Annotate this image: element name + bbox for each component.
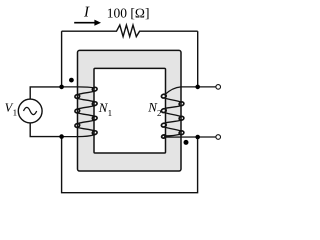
svg-text:1: 1 [13,107,18,117]
svg-text:100 [Ω]: 100 [Ω] [107,5,150,20]
svg-text:2: 2 [157,108,162,118]
svg-text:1: 1 [108,108,113,118]
svg-text:I: I [83,4,90,20]
